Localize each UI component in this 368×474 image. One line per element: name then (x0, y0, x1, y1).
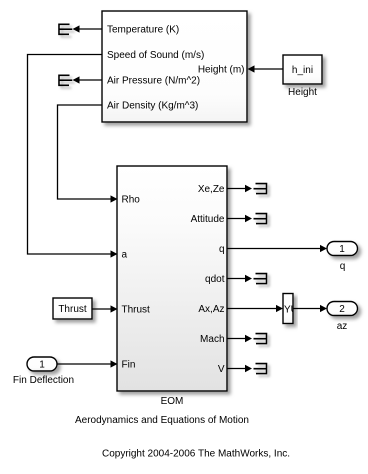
wire Ax,Az to selector (227, 305, 283, 312)
svg-text:az: az (337, 321, 348, 332)
port label Speed of Sound (m/s) (107, 50, 204, 61)
wire Speed of Sound to a (28, 55, 118, 258)
label Fin Deflection (13, 375, 74, 386)
svg-text:1: 1 (39, 360, 45, 371)
port label Air Density (Kg/m^3) (107, 101, 198, 112)
svg-text:1: 1 (339, 244, 345, 255)
wire qdot to terminator (227, 275, 252, 282)
block Thrust constant (53, 298, 92, 319)
svg-text:Temperature (K): Temperature (K) (107, 25, 179, 36)
wire Fin Deflection to EOM (57, 360, 118, 367)
port label Air Pressure (N/m^2) (107, 76, 200, 87)
wire Air Pressure to terminator (73, 76, 103, 83)
terminator T7 (V) (254, 364, 267, 374)
svg-text:YU: YU (284, 305, 298, 316)
port label Xe,Ze (198, 184, 225, 195)
svg-text:Fin: Fin (122, 360, 136, 371)
svg-text:EOM: EOM (161, 396, 184, 407)
port label Height (m) (198, 65, 245, 76)
block EOM subsystem (117, 166, 227, 391)
svg-text:Attitude: Attitude (191, 214, 225, 225)
svg-text:Aerodynamics and Equations of: Aerodynamics and Equations of Motion (75, 415, 249, 426)
svg-text:V: V (218, 364, 225, 375)
svg-text:Ax,Az: Ax,Az (198, 304, 224, 315)
terminator T4 (Attitude) (254, 214, 267, 224)
svg-text:h_ini: h_ini (292, 65, 313, 76)
port label a (122, 250, 128, 261)
wire Attitude to terminator (227, 215, 252, 222)
terminator T6 (Mach) (254, 334, 267, 344)
port label Ax,Az (198, 304, 224, 315)
wire q to outport (227, 245, 327, 252)
terminator T1 (Temperature) (59, 24, 72, 34)
wire Xe,Ze to terminator (227, 185, 252, 192)
svg-text:Height (m): Height (m) (198, 65, 245, 76)
label EOM (161, 396, 184, 407)
label q (340, 261, 346, 272)
block h_ini constant (283, 55, 322, 84)
wire Temperature to terminator (73, 25, 103, 32)
label az (337, 321, 348, 332)
wire Air Density to Rho (58, 105, 118, 203)
selector block YU (283, 294, 298, 324)
wire h_ini to Height input (248, 65, 284, 72)
svg-text:Air Density (Kg/m^3): Air Density (Kg/m^3) (107, 101, 198, 112)
inport 1 Fin Deflection (27, 357, 57, 371)
wire Thrust to EOM (92, 305, 118, 312)
svg-text:qdot: qdot (205, 274, 225, 285)
port label qdot (205, 274, 225, 285)
svg-text:a: a (122, 250, 128, 261)
wire V to terminator (227, 365, 252, 372)
svg-text:Xe,Ze: Xe,Ze (198, 184, 225, 195)
port label Temperature (K) (107, 25, 179, 36)
svg-text:Speed of Sound (m/s): Speed of Sound (m/s) (107, 50, 204, 61)
port label Mach (200, 334, 224, 345)
block Atmosphere subsystem (102, 11, 247, 122)
port label Rho (122, 195, 141, 206)
outport 1 q (327, 242, 358, 256)
terminator T2 (Air Pressure) (59, 75, 72, 85)
svg-text:Copyright 2004-2006 The MathWo: Copyright 2004-2006 The MathWorks, Inc. (102, 449, 290, 460)
annotation Aerodynamics and Equations of Motion (75, 415, 249, 426)
port label Attitude (191, 214, 225, 225)
svg-text:q: q (340, 261, 346, 272)
svg-text:Thrust: Thrust (122, 305, 151, 316)
outport 2 az (327, 302, 358, 316)
wire selector to az outport (293, 305, 327, 312)
port label Thrust in (122, 305, 151, 316)
port label q out (219, 244, 225, 255)
terminator T3 (Xe,Ze) (254, 184, 267, 194)
svg-text:Fin Deflection: Fin Deflection (13, 375, 74, 386)
port label Fin (122, 360, 136, 371)
svg-text:q: q (219, 244, 225, 255)
annotation Copyright (102, 449, 290, 460)
svg-text:Air Pressure (N/m^2): Air Pressure (N/m^2) (107, 76, 200, 87)
terminator T5 (qdot) (254, 274, 267, 284)
port label V (218, 364, 225, 375)
svg-text:Thrust: Thrust (58, 304, 87, 315)
svg-text:Height: Height (288, 87, 317, 98)
wire Mach to terminator (227, 335, 252, 342)
label Height (288, 87, 317, 98)
svg-text:2: 2 (339, 304, 345, 315)
svg-text:Mach: Mach (200, 334, 224, 345)
svg-text:Rho: Rho (122, 195, 141, 206)
